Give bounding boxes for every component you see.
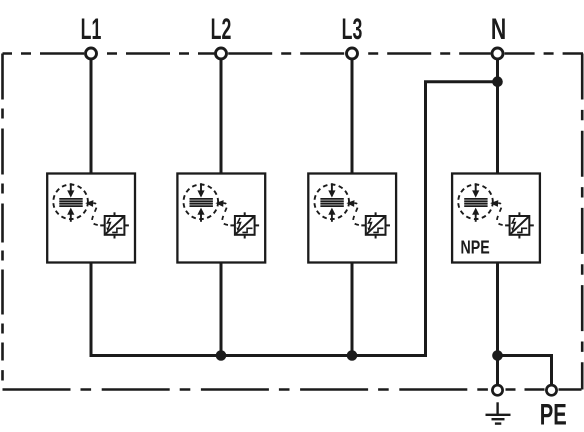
svg-text:PE: PE [540, 399, 567, 432]
svg-text:L1: L1 [81, 14, 102, 47]
svg-text:L3: L3 [342, 14, 363, 47]
svg-text:N: N [491, 14, 506, 46]
svg-text:NPE: NPE [461, 237, 490, 258]
svg-text:L2: L2 [211, 14, 232, 47]
